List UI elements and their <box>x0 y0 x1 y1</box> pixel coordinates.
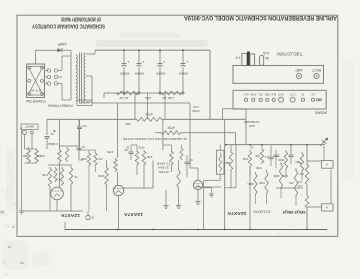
ground x166 <box>163 205 168 207</box>
wire to speaker terminal 2 <box>307 206 322 208</box>
wire second stage bottoms <box>49 188 51 211</box>
transformer T1 core <box>79 53 81 104</box>
svg-text:ATTEN.: ATTEN. <box>158 170 169 174</box>
wire V column x59 <box>59 119 61 149</box>
transformer can T-4 on chassis <box>242 53 247 65</box>
wire V column x47 <box>46 119 48 135</box>
svg-text:A: A <box>326 163 328 167</box>
svg-text:T-4: T-4 <box>236 55 241 59</box>
wire V2 plate to right <box>122 187 153 189</box>
wire R8 top <box>106 160 108 166</box>
svg-text:6.8K: 6.8K <box>146 155 152 159</box>
svg-text:40MFD: 40MFD <box>120 71 129 75</box>
transformer T1 secondary winding <box>84 53 86 103</box>
wire secondary bottom tap to heater line <box>86 101 92 103</box>
capacitor C15 <box>269 156 274 158</box>
wire output mid <box>276 187 303 189</box>
resistor R3 3.3MEG <box>58 149 62 163</box>
wire x162 <box>162 119 164 150</box>
wire B+ drop 3 <box>159 50 161 63</box>
wire x135 up <box>134 93 136 119</box>
svg-text:ALL RESISTORS 1/2W 10% UNLESS: ALL RESISTORS 1/2W 10% UNLESS NOTED <box>122 137 187 141</box>
svg-text:OUT: OUT <box>290 93 296 97</box>
chassis layout box (tube locations) <box>233 66 324 84</box>
svg-text:6.3V: 6.3V <box>193 105 199 109</box>
svg-text:470K: 470K <box>259 181 265 185</box>
wire R5 R6 bottoms <box>88 166 90 211</box>
wire x236 drop <box>235 145 237 188</box>
wire C3 down <box>79 129 81 150</box>
ground reverb <box>209 193 214 195</box>
wire second stage top <box>48 164 72 166</box>
svg-text:1MEG: 1MEG <box>37 154 45 158</box>
svg-text:22K: 22K <box>125 122 130 126</box>
svg-text:470K: 470K <box>242 157 248 161</box>
wire x144 <box>143 166 145 188</box>
svg-text:2.2K 1W: 2.2K 1W <box>162 96 174 100</box>
wire x153 <box>152 161 154 189</box>
wire C2 down <box>78 150 80 160</box>
small can 5A <box>260 55 264 65</box>
capacitor C30 electrolytic <box>158 63 163 65</box>
svg-text:3.3MEG: 3.3MEG <box>48 142 58 146</box>
ground R13 <box>176 205 181 207</box>
wire grid line right <box>182 132 236 134</box>
input jack J1 box <box>21 124 38 130</box>
svg-text:220K: 220K <box>81 157 87 161</box>
wire right column bottom <box>306 209 308 230</box>
svg-text:0.1: 0.1 <box>264 155 268 159</box>
second stage resistors <box>48 167 51 188</box>
wire secondary mid tap <box>86 75 92 77</box>
wire stub R18 <box>270 145 272 148</box>
tube V3 12AX7A (c) <box>193 180 202 189</box>
wire right column mid <box>306 186 308 194</box>
wire plug to transformer primary <box>61 56 63 71</box>
switch S1 cross wiring <box>28 67 43 96</box>
svg-text:100K: 100K <box>273 174 279 178</box>
node output rail <box>225 144 325 146</box>
svg-text:YEL: YEL <box>258 93 263 97</box>
wire V3 plate right <box>196 186 221 188</box>
node ground bus <box>65 229 327 231</box>
svg-text:(REAR): (REAR) <box>315 110 327 114</box>
svg-text:AMP: AMP <box>295 68 303 72</box>
wire vertical V8 <box>189 103 191 168</box>
svg-text:12AX7A: 12AX7A <box>227 211 247 216</box>
svg-text:14-B: 14-B <box>263 51 270 55</box>
svg-text:.02: .02 <box>50 132 54 136</box>
svg-text:40K: 40K <box>299 172 304 176</box>
wire B+ drop 2 <box>138 50 140 63</box>
svg-text:AC INT.: AC INT. <box>79 101 89 105</box>
svg-text:68K: 68K <box>22 154 27 158</box>
svg-text:J2: J2 <box>91 215 95 219</box>
wire stub R17 <box>266 196 268 204</box>
resistor R13b <box>180 147 183 160</box>
tube V2 12AX7A (b) <box>113 185 123 195</box>
resistor R9 470K <box>114 158 118 172</box>
svg-text:SCHEMATIC DIAGRAM COURTESY: SCHEMATIC DIAGRAM COURTESY <box>32 22 105 28</box>
svg-text:BLK: BLK <box>271 93 276 97</box>
capacitor C3 6-P <box>79 119 81 126</box>
resistor R6 <box>94 152 97 166</box>
svg-text:47K: 47K <box>289 181 294 185</box>
speaker fuse arrow <box>321 140 327 147</box>
svg-text:6-P: 6-P <box>82 124 86 128</box>
svg-text:1-W: 1-W <box>297 184 302 188</box>
svg-text:100K: 100K <box>282 174 288 178</box>
switch S1 contacts <box>28 66 31 69</box>
ground bus junction dots <box>117 229 119 231</box>
tube V1 12AX7A (a) <box>51 187 64 200</box>
AC interlock box <box>77 100 92 106</box>
svg-text:470K: 470K <box>166 125 174 129</box>
resistor R16 <box>260 148 263 164</box>
svg-text:20MFD: 20MFD <box>156 71 165 75</box>
terminal strip eyelets <box>244 98 247 101</box>
jack J2 foot switch <box>86 215 90 219</box>
node filter row junctions <box>123 92 125 94</box>
resistor R22 beside box <box>229 150 232 172</box>
svg-text:470K: 470K <box>138 146 144 150</box>
wire reverb box top <box>219 145 221 151</box>
wire stub R19 <box>275 160 277 168</box>
tube socket AMP <box>296 73 301 78</box>
svg-text:40MFD: 40MFD <box>135 71 144 75</box>
svg-text:12AX7A: 12AX7A <box>123 212 143 217</box>
svg-text:1MEG: 1MEG <box>247 182 254 186</box>
resistor R29 <box>305 194 309 209</box>
wire filter drop b <box>164 93 166 119</box>
svg-text:12AX7A: 12AX7A <box>60 213 80 218</box>
svg-text:2AMP.: 2AMP. <box>57 42 66 46</box>
resistor R21 470K (horizontal) <box>160 131 182 135</box>
wire stub R20 <box>280 190 282 198</box>
wire terminal1 to terminal2 <box>330 170 332 203</box>
resistor R11 <box>142 150 146 166</box>
wire reverb lower link <box>204 179 217 181</box>
svg-text:REV: REV <box>225 161 231 165</box>
wire stub R22 <box>290 145 292 146</box>
wire diode to transformer <box>62 49 71 51</box>
node output dots <box>261 144 263 146</box>
resistor R20 <box>279 162 282 190</box>
svg-text:HTRS: HTRS <box>192 109 200 113</box>
svg-text:UNIT: UNIT <box>249 124 256 128</box>
svg-text:470K: 470K <box>144 112 152 116</box>
wire corner to reverb rail <box>235 133 237 145</box>
capacitor C40 electrolytic <box>181 63 186 65</box>
svg-text:.02: .02 <box>189 158 193 162</box>
wire R13 <box>178 160 180 168</box>
svg-text:1K: 1K <box>74 175 77 179</box>
capacitor C2 <box>77 147 82 149</box>
svg-text:IN: IN <box>301 93 304 97</box>
resistor R13 <box>177 168 181 190</box>
wire reverb box bottom <box>219 174 221 180</box>
svg-text:470K: 470K <box>256 166 262 170</box>
svg-text:INPUT: INPUT <box>25 125 34 129</box>
resistor R1 68K <box>27 149 31 163</box>
wire secondary top tap to B+ rail <box>86 53 95 55</box>
resistor R20 470K (horizontal) <box>135 117 163 121</box>
svg-text:250K: 250K <box>278 158 284 162</box>
wire grid line <box>155 132 160 134</box>
choke can <box>250 54 255 66</box>
interlock plug P1 pins <box>47 69 50 72</box>
svg-text:.01: .01 <box>82 145 86 149</box>
wire C1 down <box>46 138 48 149</box>
filter cap can (dark) <box>247 52 250 66</box>
resistor R2 1MEG <box>35 149 39 163</box>
wire input tops <box>25 148 37 150</box>
svg-text:GND: GND <box>278 93 284 97</box>
wire filter drop a <box>147 93 149 119</box>
svg-text:POWER SW.: POWER SW. <box>25 99 45 103</box>
wire V3 <box>197 190 199 201</box>
svg-text:POWER TRANS.: POWER TRANS. <box>47 103 72 107</box>
wire rail right corner down <box>209 50 211 119</box>
wire stub R23 <box>295 198 297 206</box>
svg-text:RED: RED <box>264 93 270 97</box>
wire B+ drop 1 <box>123 50 125 63</box>
resistor R23 <box>294 168 297 198</box>
wire B+ drop 4 <box>182 50 184 63</box>
input jack J1 <box>23 131 27 135</box>
wire R12 <box>171 145 173 150</box>
wire C5 <box>130 145 132 151</box>
ground input <box>19 210 24 212</box>
capacitor C16 <box>274 154 279 156</box>
svg-text:AC: AC <box>311 93 315 97</box>
svg-text:.02: .02 <box>250 146 254 150</box>
svg-text:OF MONTGOMERY WARD: OF MONTGOMERY WARD <box>61 16 101 22</box>
svg-text:1K 1W: 1K 1W <box>119 96 128 100</box>
wire jack down <box>24 135 26 150</box>
wire x166 ground <box>165 190 167 205</box>
node B+ rail <box>95 49 210 51</box>
svg-text:RECT: RECT <box>312 68 321 72</box>
wire to speaker terminal 1 <box>307 160 322 162</box>
wire stub R16 <box>261 145 263 148</box>
wire H5 <box>223 108 246 110</box>
svg-text:20 3W4: 20 3W4 <box>158 166 169 170</box>
wire vertical V10 <box>224 119 226 229</box>
transformer T1 primary winding <box>76 55 78 101</box>
wire stub R15 <box>255 196 257 204</box>
wire rail segment <box>163 118 246 120</box>
resistor R14 <box>248 150 251 168</box>
speaker terminal box 1 <box>322 161 334 169</box>
wire ground bus left drop <box>64 222 66 230</box>
resistor R24 <box>300 152 303 172</box>
wire arrow to terminal 1 <box>323 146 325 161</box>
svg-text:22K: 22K <box>255 154 260 158</box>
speaker terminal box 2 <box>322 204 334 211</box>
wire input bottoms to ground <box>25 162 37 164</box>
svg-text:470K: 470K <box>107 150 114 154</box>
wire switch to plug <box>45 70 48 72</box>
capacitor C19 <box>289 154 294 156</box>
wire tube V1 cathode to ground bus <box>56 200 58 211</box>
wire stub R14 <box>249 168 251 176</box>
svg-text:A: A <box>326 205 328 209</box>
wire output bus verticals <box>249 167 251 230</box>
svg-text:TUBE LOCATIONS: TUBE LOCATIONS <box>277 51 303 56</box>
resistor R28 <box>305 163 309 186</box>
resistor R8 <box>105 166 109 186</box>
svg-text:47K: 47K <box>98 157 103 161</box>
node grid dot <box>54 130 56 132</box>
capacitor C7 <box>185 161 190 163</box>
svg-text:470K: 470K <box>42 173 48 177</box>
resistor R30 1K <box>115 91 140 95</box>
svg-text:BLU: BLU <box>243 93 248 97</box>
svg-text:AIRLINE REVERBERATION SCHEMATI: AIRLINE REVERBERATION SCHEMATIC MODEL GV… <box>184 14 337 21</box>
svg-text:GRN: GRN <box>250 93 256 97</box>
resistor R21 <box>284 150 287 170</box>
resistor R5 <box>87 152 90 166</box>
resistor R10 <box>135 150 139 166</box>
resistor R15 <box>254 172 257 196</box>
ground V3 <box>195 201 200 203</box>
node plate supply rail <box>47 118 135 120</box>
heater line <box>92 102 190 104</box>
capacitor C1 .02 <box>45 136 50 138</box>
svg-text:100K: 100K <box>98 174 105 178</box>
wire cap 1 to resistor row <box>123 67 125 93</box>
svg-text:117V. 60~: 117V. 60~ <box>29 88 42 92</box>
wire stub R24 <box>301 172 303 180</box>
capacitor C20 electrolytic <box>137 63 142 65</box>
svg-text:TO SPKR: TO SPKR <box>156 161 170 165</box>
tube socket RECT <box>314 73 319 78</box>
capacitor C10 electrolytic <box>122 63 127 65</box>
wire switch top to diode <box>35 50 37 64</box>
svg-text:10MFD: 10MFD <box>179 71 188 75</box>
svg-text:6BQ5 6BQ5: 6BQ5 6BQ5 <box>283 210 306 214</box>
svg-text:2-A: 2-A <box>298 180 302 184</box>
resistor R17 <box>265 170 268 196</box>
resistor R12 <box>170 150 174 166</box>
wire cap 3 to resistor row <box>159 67 161 93</box>
diode D1 <box>58 48 62 52</box>
wire cap 2 to resistor row <box>138 67 140 93</box>
transformer T1 primary lead <box>70 56 72 100</box>
wire x79 <box>78 119 80 146</box>
terminal strip box <box>233 90 326 109</box>
resistor R31 2.2K <box>160 91 183 95</box>
wire cap 4 to resistor row <box>182 67 184 93</box>
reverb unit box <box>217 150 225 174</box>
wire R10 <box>136 145 138 150</box>
svg-text:0.5: 0.5 <box>275 154 279 158</box>
wire C7 <box>186 155 188 161</box>
switch S1 box <box>27 64 45 98</box>
svg-text:.02: .02 <box>126 146 130 150</box>
resistor inside reverb box <box>219 153 222 173</box>
svg-text:1/2 12AX7A: 1/2 12AX7A <box>253 209 271 213</box>
wire V2 column <box>117 103 119 119</box>
wire right column top <box>306 145 308 163</box>
node filter row <box>104 92 183 94</box>
wire stub R21 <box>285 170 287 178</box>
capacitor C5 <box>129 151 134 153</box>
wire vertical V12 <box>245 109 247 145</box>
wire filter row to transformer <box>103 93 105 98</box>
svg-text:TO REVERB: TO REVERB <box>244 120 260 124</box>
